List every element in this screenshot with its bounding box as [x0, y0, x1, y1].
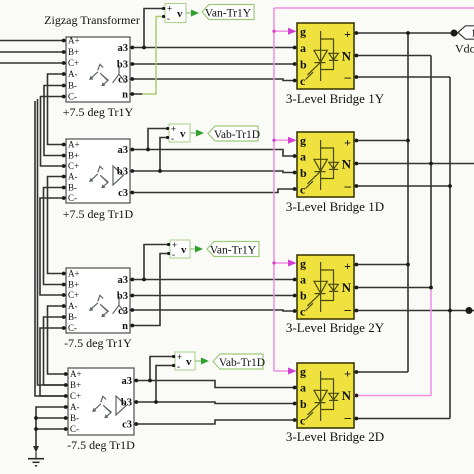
- node T4 input dots: [64, 372, 68, 376]
- svg-text:A+: A+: [70, 369, 82, 379]
- transformer T1 +7.5 deg Tr1Y: [66, 36, 130, 103]
- svg-text:A+: A+: [68, 269, 80, 279]
- svg-text:a3: a3: [118, 145, 129, 156]
- svg-text:C-: C-: [68, 193, 77, 203]
- wire B3.minus to right edge: [354, 310, 474, 312]
- arrow pink into B2.g: [288, 137, 297, 144]
- wire B1.plus to Vdc outport: [354, 32, 458, 34]
- svg-text:3-Level Bridge 2D: 3-Level Bridge 2D: [286, 429, 384, 444]
- wire T2.B- to T3.B+: [44, 188, 67, 285]
- svg-text:C+: C+: [68, 161, 79, 171]
- wire tap a3 to VM1 plus: [144, 9, 165, 48]
- wire T4.c3 to B4.c: [134, 420, 297, 424]
- svg-text:–: –: [344, 69, 352, 84]
- svg-text:–: –: [344, 178, 352, 193]
- wire pink stub B1.g: [274, 30, 289, 32]
- svg-text:c3: c3: [118, 306, 128, 317]
- wire T2.c3 to B2.c: [130, 189, 297, 193]
- svg-text:–: –: [344, 410, 352, 425]
- svg-text:3-Level Bridge 1D: 3-Level Bridge 1D: [286, 199, 384, 214]
- svg-text:C-: C-: [70, 424, 79, 434]
- wire T3.B- to T4.B+: [44, 317, 69, 385]
- svg-text:c: c: [300, 74, 306, 88]
- node T1 output dots: [130, 46, 134, 50]
- svg-text:b3: b3: [117, 60, 128, 71]
- node VM input dots: [162, 7, 165, 10]
- wire T2.C- to T3.C+: [40, 198, 66, 295]
- svg-text:c: c: [300, 414, 306, 428]
- svg-text:A-: A-: [68, 301, 78, 311]
- svg-text:B+: B+: [68, 151, 79, 161]
- svg-text:-7.5 deg Tr1Y: -7.5 deg Tr1Y: [64, 336, 132, 350]
- wire T1.B- to T2.B+: [44, 86, 66, 156]
- svg-text:3-Level Bridge 1Y: 3-Level Bridge 1Y: [286, 91, 385, 106]
- wire source C to T1.C+: [0, 62, 66, 64]
- svg-text:b3: b3: [117, 291, 128, 302]
- svg-text:+: +: [344, 259, 351, 273]
- svg-text:a3: a3: [122, 376, 133, 387]
- transformer T4 -7.5 deg Tr1D: [68, 368, 134, 435]
- wire source A to T1.A+: [0, 40, 66, 42]
- transformer T2 +7.5 deg Tr1D: [66, 139, 130, 203]
- bridge U3 3-Level Bridge 2Y: [297, 255, 354, 319]
- svg-text:–: –: [344, 302, 352, 317]
- svg-text:b3: b3: [121, 398, 132, 409]
- svg-text:a: a: [300, 41, 306, 55]
- svg-text:C-: C-: [68, 92, 77, 102]
- svg-text:b3: b3: [117, 167, 128, 178]
- svg-text:-7.5 deg Tr1D: -7.5 deg Tr1D: [67, 438, 135, 452]
- svg-text:Vab-Tr1D: Vab-Tr1D: [219, 357, 265, 369]
- voltage measurement VM2: [169, 124, 190, 144]
- svg-text:a: a: [300, 381, 306, 395]
- svg-text:n: n: [122, 90, 128, 101]
- svg-text:B-: B-: [68, 81, 77, 91]
- node bridge input dots: [293, 46, 297, 50]
- wire B1.N stub: [354, 55, 431, 57]
- svg-text:B+: B+: [68, 47, 79, 57]
- arrow VM3 to tag: [190, 248, 195, 250]
- wire tap T4.a3 to VM4 plus: [150, 357, 175, 381]
- goto tag Van-Tr1Y: [202, 5, 254, 20]
- svg-text:+7.5 deg Tr1Y: +7.5 deg Tr1Y: [63, 105, 134, 119]
- arrow pink into B3.g: [288, 260, 297, 267]
- svg-text:N: N: [342, 280, 352, 295]
- svg-text:v: v: [180, 128, 186, 140]
- svg-text:C+: C+: [70, 391, 81, 401]
- wire T4.a3 to B4.a: [134, 381, 297, 388]
- svg-text:+: +: [172, 240, 177, 250]
- wire T1.C- to T2.C+: [41, 97, 67, 167]
- node T1 input dots: [62, 39, 66, 43]
- goto tag Vab-Tr1D: [208, 126, 260, 141]
- svg-text:a3: a3: [118, 43, 129, 54]
- svg-text:B-: B-: [70, 413, 79, 423]
- svg-text:A-: A-: [70, 402, 80, 412]
- svg-text:+7.5 deg Tr1D: +7.5 deg Tr1D: [63, 207, 134, 221]
- svg-text:b: b: [300, 166, 307, 180]
- wire B1.minus stub: [354, 76, 450, 78]
- wire T2.A- to T3.A+: [48, 177, 67, 274]
- wire B3.plus stub: [354, 264, 408, 266]
- arrow pink into B1.g: [288, 28, 297, 35]
- wire pink gate main top: [274, 7, 474, 9]
- svg-text:a: a: [300, 150, 306, 164]
- bridge U1 3-Level Bridge 1Y: [297, 23, 354, 89]
- svg-text:-: -: [171, 134, 174, 144]
- node T4 ground bus dots: [34, 416, 38, 420]
- wire B2.N to right edge: [354, 163, 474, 165]
- wire T1.a3 to B1.a: [130, 47, 297, 49]
- wire pink B4.N feedback: [354, 288, 431, 396]
- arrow pink into B4.g: [288, 368, 297, 375]
- wire T4 A- B- C- to ground bus: [36, 407, 68, 447]
- wire green T1.n to VM1 minus: [142, 17, 165, 95]
- wire pink gate vertical: [273, 8, 275, 371]
- svg-text:g: g: [300, 134, 306, 148]
- svg-text:Vab-Tr1D: Vab-Tr1D: [214, 129, 260, 141]
- wire T4.b3 to B4.b: [134, 402, 297, 404]
- svg-text:+: +: [344, 367, 351, 381]
- node bridge output dots: [355, 31, 359, 35]
- svg-text:g: g: [300, 365, 306, 379]
- bridge U2 3-Level Bridge 1D: [297, 132, 354, 197]
- svg-text:+: +: [177, 352, 182, 362]
- svg-text:A+: A+: [68, 140, 80, 150]
- wire B4.plus stub: [354, 371, 408, 373]
- node VM tap junction dots: [142, 46, 146, 50]
- wire B4.minus stub: [354, 418, 450, 420]
- ground symbol: [28, 452, 44, 466]
- wire T3.C- to T4.C+: [40, 328, 68, 396]
- arrow VM4 to tag: [195, 360, 201, 362]
- svg-text:c3: c3: [122, 420, 132, 431]
- wire tap T2.a3 to VM2 plus: [148, 129, 169, 150]
- node DC bus junction dots: [406, 31, 410, 35]
- wire tap T2.b3 to VM2 minus: [160, 138, 169, 172]
- node Vdc junction big dot: [451, 30, 458, 37]
- node T3 input dots: [62, 272, 66, 276]
- node T3 output dots: [130, 278, 134, 282]
- svg-text:g: g: [300, 25, 306, 39]
- svg-text:B-: B-: [68, 312, 77, 322]
- outport 1 (Vdc) top right: [458, 26, 474, 40]
- svg-text:n: n: [122, 321, 128, 332]
- wire tap T4.b3 to VM4 minus: [156, 366, 175, 403]
- svg-text:+: +: [344, 27, 351, 41]
- ground arrowhead: [33, 446, 39, 453]
- wire pink stub B3.g: [274, 262, 289, 264]
- wire pink stub B4.g: [274, 370, 289, 372]
- svg-text:N: N: [342, 157, 352, 172]
- svg-text:A-: A-: [68, 172, 78, 182]
- wire T1.c3 to B1.c: [130, 79, 297, 81]
- arrow VM1 to tag: [186, 12, 191, 14]
- svg-text:Van-Tr1Y: Van-Tr1Y: [205, 8, 252, 20]
- wire T3.a3 to B3.a: [130, 279, 297, 281]
- wire T3.b3 to B3.b: [130, 295, 297, 297]
- svg-text:b: b: [300, 289, 307, 303]
- svg-text:3-Level Bridge 2Y: 3-Level Bridge 2Y: [286, 320, 385, 335]
- svg-text:B+: B+: [70, 380, 81, 390]
- svg-text:Vdc: Vdc: [455, 42, 474, 56]
- voltage measurement VM4: [175, 352, 195, 372]
- svg-text:A+: A+: [68, 36, 80, 46]
- transformer T3 -7.5 deg Tr1Y: [66, 268, 130, 333]
- svg-text:v: v: [181, 244, 187, 256]
- wire T1.A- to T2.A+: [48, 74, 67, 145]
- wire pink stub B2.g: [274, 139, 289, 141]
- wire N bus vertical: [430, 56, 432, 288]
- wire source B to T1.B+: [0, 51, 66, 53]
- node DC minus junction big dot: [466, 307, 473, 314]
- svg-text:A-: A-: [68, 69, 78, 79]
- svg-text:C+: C+: [68, 58, 79, 68]
- wire B2.plus stub: [354, 140, 408, 142]
- svg-text:C+: C+: [68, 290, 79, 300]
- svg-text:N: N: [342, 49, 352, 64]
- wire DC minus bus vertical: [449, 77, 451, 419]
- svg-text:N: N: [342, 388, 352, 403]
- svg-text:+: +: [171, 124, 176, 134]
- wire T3.n to VM3 minus: [130, 254, 170, 326]
- goto tag Van-Tr1Y 2: [207, 242, 259, 257]
- wire long bus 2: [35, 101, 68, 396]
- svg-text:c: c: [300, 305, 306, 319]
- svg-text:-: -: [172, 250, 175, 260]
- voltage measurement VM1: [165, 4, 186, 24]
- svg-text:C-: C-: [68, 323, 77, 333]
- wire T2.b3 to B2.b: [130, 171, 297, 173]
- wire B3.N stub: [354, 287, 431, 289]
- node T2 output dots: [130, 148, 134, 152]
- wire T1.b3 to B1.b: [130, 63, 297, 65]
- svg-text:v: v: [177, 8, 183, 20]
- wire T2.a3 to B2.a: [130, 150, 297, 157]
- svg-text:-: -: [167, 14, 170, 24]
- wire T1.n stub: [130, 93, 143, 95]
- svg-text:b: b: [300, 58, 307, 72]
- svg-text:b: b: [300, 397, 307, 411]
- goto tag Vab-Tr1D 2: [213, 354, 265, 369]
- svg-text:a3: a3: [118, 275, 129, 286]
- svg-text:-: -: [177, 362, 180, 372]
- svg-text:c3: c3: [118, 75, 128, 86]
- svg-text:v: v: [186, 356, 192, 368]
- wire DC plus bus vertical: [407, 33, 409, 372]
- wire tap T3.a3 to VM3 plus: [144, 245, 170, 280]
- svg-text:Zigzag Transformer: Zigzag Transformer: [44, 13, 140, 27]
- arrow VM2 to tag: [190, 132, 196, 134]
- node T2 input dots: [62, 143, 66, 147]
- svg-text:c3: c3: [118, 188, 128, 199]
- svg-text:g: g: [300, 257, 306, 271]
- wire T3.c3 to B3.c: [130, 310, 297, 311]
- node pink junction dots: [272, 30, 275, 265]
- svg-text:Van-Tr1Y: Van-Tr1Y: [210, 244, 257, 256]
- svg-text:+: +: [167, 4, 172, 14]
- bridge U4 3-Level Bridge 2D: [297, 363, 354, 428]
- svg-text:B-: B-: [68, 183, 77, 193]
- wire B2.minus stub: [354, 185, 450, 187]
- voltage measurement VM3: [170, 240, 190, 260]
- wire long bus 1: [38, 99, 69, 385]
- svg-text:a: a: [300, 273, 306, 287]
- svg-text:+: +: [344, 136, 351, 150]
- svg-text:c: c: [300, 183, 306, 197]
- wire T3.A- to T4.A+: [48, 306, 69, 374]
- node T4 output dots: [134, 379, 138, 383]
- svg-text:B+: B+: [68, 280, 79, 290]
